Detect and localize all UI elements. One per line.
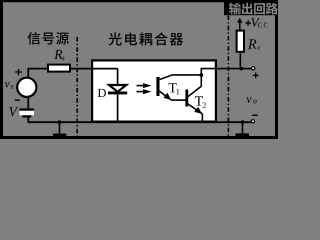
label 光电耦合器 (photocoupler): [109, 32, 122, 45]
bottom rail wire: [28, 121, 251, 123]
label T2: [195, 96, 203, 105]
section divider dash-dot right: [227, 16, 229, 137]
wire T1 emitter to T2 base: [171, 99, 186, 101]
label +Vcc: [245, 22, 251, 24]
phototransistor T1 base bar: [156, 77, 159, 96]
ground (right): [242, 122, 244, 134]
LED D anode wire: [117, 69, 119, 86]
light arrow 1: [137, 85, 148, 87]
wire Rc to node: [239, 52, 241, 69]
label vo: [246, 97, 251, 103]
label V: [9, 107, 18, 116]
label vs: [5, 82, 10, 87]
top rail wire (source to LED): [28, 69, 47, 78]
voltage source vs circle: [17, 78, 36, 97]
label T1: [169, 83, 177, 92]
T1 collector: [159, 75, 201, 80]
section divider dash-dot left: [76, 37, 78, 136]
node: bottom rail junction right: [241, 120, 245, 124]
minus sign of source: [15, 99, 20, 101]
label Rc: [248, 39, 256, 48]
terminal +: [252, 67, 255, 70]
label 输出回路 (output loop, inverted box): [224, 0, 278, 15]
wire T2 emitter down: [201, 114, 203, 122]
label Rs: [54, 50, 62, 59]
resistor Rs: [48, 65, 70, 72]
LED cathode wire: [117, 94, 119, 122]
Vcc arrow: [239, 22, 241, 32]
battery V: [20, 111, 35, 116]
wire source to battery: [27, 97, 29, 109]
node: T1 collector junction: [199, 73, 203, 77]
T1 emitter: [159, 91, 171, 100]
wire collectors to output node: [201, 69, 241, 87]
terminal -: [251, 120, 254, 123]
junction node left ground: [58, 120, 62, 124]
wire battery to bottom rail: [27, 118, 29, 124]
light arrow 2: [137, 91, 148, 93]
plus sign of source: [15, 71, 22, 73]
optocoupler box U1: [92, 60, 216, 121]
label 信号源 (signal source): [28, 32, 41, 45]
ground (left): [59, 122, 61, 134]
transistor T2 base bar: [185, 90, 188, 107]
wire Rs to LED: [71, 68, 118, 70]
border frame: [0, 0, 278, 2]
minus sign output: [252, 114, 258, 116]
wire to output terminal +: [241, 68, 252, 70]
plus sign output: [253, 74, 259, 76]
node: output top junction: [239, 67, 243, 71]
diode D (LED): [109, 85, 126, 92]
T2 collector: [187, 86, 201, 97]
resistor Rc: [237, 31, 244, 52]
label D: [98, 89, 106, 97]
T2 emitter: [187, 103, 202, 113]
